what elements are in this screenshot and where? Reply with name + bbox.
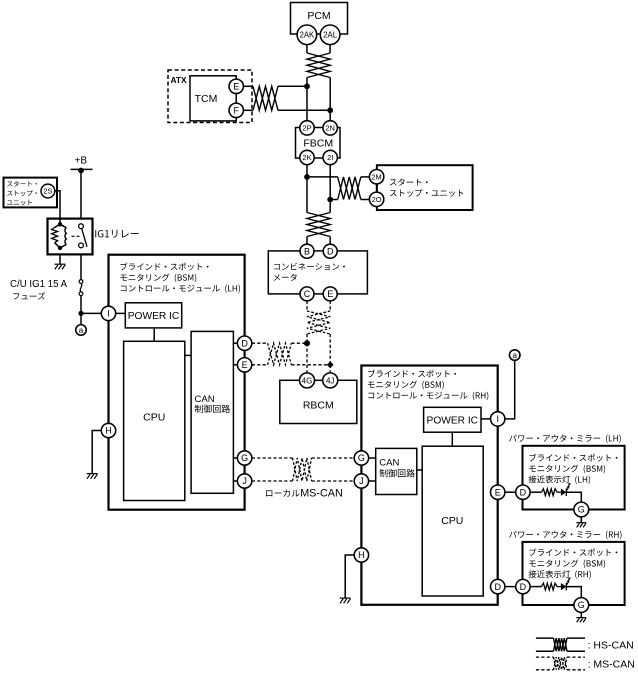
ground RH module [340, 597, 351, 599]
wire twisted to 2M [361, 176, 370, 178]
svg-text:TCM: TCM [195, 93, 218, 105]
power outer mirror LH box [523, 446, 625, 510]
resistor mirror LH [542, 489, 558, 496]
node junction fuse/I [78, 311, 83, 316]
svg-text:I: I [107, 309, 110, 319]
LED indicator RH [557, 586, 561, 588]
svg-text:J: J [359, 476, 364, 486]
fuse C/U IG1 15A [79, 280, 83, 284]
connector G mirror LH [574, 502, 589, 517]
MS-CAN dashed wire J local [252, 480, 293, 482]
combination meter box [268, 251, 367, 294]
svg-text:RBCM: RBCM [303, 400, 334, 412]
connector D LH [237, 336, 251, 350]
wire CPU to CAN box [185, 354, 191, 356]
wire +B down to relay [80, 169, 82, 218]
start-stop unit box (right) [377, 165, 473, 210]
wire G to ground mirror RH [580, 612, 582, 617]
MS-CAN dashed wire diamond to 4J [329, 365, 331, 373]
svg-text:D: D [241, 338, 248, 348]
wire POWER IC to CPU [153, 328, 155, 341]
svg-text:a: a [512, 351, 517, 360]
wire D to resistor RH [530, 586, 541, 588]
svg-text:+B: +B [75, 156, 88, 167]
wire CAN-L vertical to FBCM [329, 78, 331, 121]
MS-CAN dashed wire C down [306, 301, 308, 311]
wire junction to connector I [81, 312, 101, 314]
node junction MS-CAN L (diamond) [327, 361, 334, 368]
wire to meter B [306, 237, 308, 245]
svg-text:MS-CAN: MS-CAN [300, 487, 343, 499]
svg-text:2N: 2N [325, 124, 335, 133]
connector D meter [323, 244, 337, 258]
connector 2N [323, 121, 337, 135]
wire to start-stop 2O [330, 199, 338, 201]
ground LH module [87, 473, 98, 475]
relay switch blade [82, 229, 87, 247]
connector B meter [300, 244, 314, 258]
IG1 relay box [48, 219, 93, 255]
local MS-CAN label [266, 489, 300, 496]
connector 2I [323, 150, 337, 164]
svg-text:G: G [241, 453, 248, 463]
svg-text:D: D [520, 487, 527, 497]
wire CAN to E [233, 364, 237, 366]
power outer mirror RH box [523, 542, 625, 605]
wire PCM 2AK down [306, 45, 308, 53]
wire CAN-H vertical to FBCM [306, 78, 308, 121]
MS-CAN twisted pair local G/J [293, 458, 312, 481]
svg-text:D: D [520, 582, 527, 592]
+B power symbol [71, 168, 93, 170]
connector E RH [491, 485, 505, 499]
svg-text:D: D [327, 246, 334, 256]
relay coil node top [58, 222, 62, 226]
HS-CAN twisted pair start-stop [338, 177, 361, 200]
connector 2AK [297, 25, 317, 45]
wire 2I down [329, 165, 331, 213]
HS-CAN twisted pair TCM [253, 86, 278, 110]
PCM box [291, 3, 348, 35]
svg-text:H: H [358, 550, 365, 560]
MS-CAN dashed wire E to diamond [291, 364, 330, 366]
svg-text:G: G [358, 453, 365, 463]
wire PCM 2AL down [329, 45, 331, 53]
svg-text:2P: 2P [302, 124, 311, 133]
wire 2K down [306, 165, 308, 213]
svg-text:ATX: ATX [171, 75, 188, 85]
MS-CAN dashed wire E down [329, 301, 331, 311]
svg-text:FBCM: FBCM [303, 138, 333, 150]
node a (right) [509, 350, 520, 361]
connector D RH [491, 579, 505, 593]
svg-text:D: D [494, 582, 501, 592]
svg-text:CPU: CPU [441, 515, 463, 527]
wire LED to corner RH [566, 587, 581, 598]
IG1 relay label [95, 230, 138, 238]
svg-text:2K: 2K [302, 153, 311, 162]
CPU box LH [124, 341, 185, 500]
LED indicator LH [557, 491, 561, 493]
svg-text:2S: 2S [43, 187, 52, 196]
BSM control module RH box [361, 366, 497, 605]
FBCM box [296, 128, 341, 159]
wire TCM E [243, 85, 253, 87]
connector F TCM [229, 103, 243, 117]
wire relay coil to ground [59, 254, 61, 263]
resistor mirror RH [542, 583, 558, 590]
svg-text:4J: 4J [326, 376, 334, 385]
node junction TCM F wire [327, 107, 333, 113]
node junction start-stop top [304, 174, 310, 180]
wire TCM E to junction [278, 85, 307, 87]
wire D RH to mirror RH D [505, 586, 516, 588]
ground relay [55, 263, 66, 265]
svg-text:H: H [105, 426, 112, 436]
node junction MS-CAN H [304, 340, 310, 346]
connector I RH [491, 412, 505, 426]
relay coil [60, 224, 66, 227]
MS-CAN dashed wire G local [252, 457, 293, 459]
svg-text:4G: 4G [302, 376, 313, 385]
wire I to POWER IC [116, 312, 126, 314]
wire H to ground [92, 431, 101, 474]
connector D mirror RH [516, 579, 530, 593]
legend HS-CAN symbol [536, 637, 554, 639]
wire CAN to J [233, 480, 237, 482]
svg-text:POWER IC: POWER IC [427, 415, 479, 426]
svg-text:POWER IC: POWER IC [128, 311, 180, 322]
svg-text:CAN: CAN [379, 457, 399, 468]
connector 2K [300, 150, 314, 164]
svg-text:CAN: CAN [195, 394, 215, 405]
wire G to CAN RH [369, 457, 376, 459]
node a (left) [76, 325, 87, 336]
relay resistor [55, 224, 60, 227]
wire TCM F [243, 109, 253, 111]
ground mirror LH [576, 522, 586, 524]
relay actuation dashed link [72, 235, 81, 237]
connector H LH [101, 423, 115, 437]
connector 2S [41, 184, 55, 198]
wire POWER IC to I [481, 418, 491, 420]
connector J RH [354, 474, 368, 488]
MS-CAN dashed wire J to RH [312, 480, 355, 482]
svg-text:2AL: 2AL [323, 31, 338, 40]
connector 2AL [320, 25, 340, 45]
svg-text:E: E [495, 487, 501, 497]
wire E RH to mirror LH D [505, 491, 516, 493]
MS-CAN dashed wire E [252, 364, 268, 366]
svg-text:: HS-CAN: : HS-CAN [588, 640, 634, 652]
svg-text:C: C [304, 289, 311, 299]
connector J LH [237, 474, 251, 488]
HS-CAN twisted pair FBCM-meter [307, 213, 330, 237]
wire I to node a [505, 360, 515, 419]
MS-CAN dashed wire G to RH [312, 457, 355, 459]
wire 2S to relay coil [54, 191, 60, 225]
POWER IC box RH [424, 407, 481, 432]
wire fuse to junction [80, 296, 82, 325]
start-stop unit box (left) [4, 178, 58, 208]
connector H RH [354, 548, 368, 562]
CAN circuit box LH [191, 331, 233, 493]
svg-text:I: I [496, 414, 499, 424]
MS-CAN dashed wire to diamond [329, 334, 331, 365]
wire H RH to ground [345, 555, 354, 598]
HS-CAN twisted pair PCM-FBCM [307, 53, 330, 78]
power outer mirror LH label [509, 435, 621, 444]
MS-CAN twisted pair meter-RBCM [307, 311, 330, 334]
wire CAN to D [233, 342, 237, 344]
svg-text:2AK: 2AK [300, 31, 316, 40]
svg-text:2O: 2O [372, 195, 382, 204]
relay switch contact top [79, 224, 84, 229]
svg-text:G: G [578, 600, 585, 610]
node junction TCM E wire [304, 83, 310, 89]
svg-text:C/U IG1 15 A: C/U IG1 15 A [10, 279, 68, 290]
svg-text:2M: 2M [371, 172, 381, 181]
connector E TCM [229, 79, 243, 93]
connector G RH [354, 451, 368, 465]
svg-text:PCM: PCM [307, 10, 330, 22]
connector 4J [323, 373, 338, 388]
svg-text:J: J [242, 476, 247, 486]
svg-text:E: E [327, 289, 333, 299]
ATX dashed enclosure [168, 70, 252, 123]
wire 2M-2O link [376, 184, 378, 192]
MS-CAN dashed wire D to junction [291, 342, 307, 344]
wire D to resistor LH [530, 491, 541, 493]
legend MS-CAN symbol [536, 656, 554, 658]
relay coil node bottom [58, 246, 62, 250]
svg-text:a: a [79, 326, 84, 335]
MS-CAN dashed wire to junction [306, 334, 308, 343]
connector G LH [237, 451, 251, 465]
MS-CAN dashed wire D [252, 342, 268, 344]
connector 4G [300, 373, 315, 388]
svg-text:: MS-CAN: : MS-CAN [588, 659, 635, 671]
connector G mirror RH [574, 598, 589, 613]
CAN circuit box RH [376, 448, 417, 494]
wire G to ground mirror LH [580, 517, 582, 522]
POWER IC box LH [125, 303, 181, 328]
ground mirror RH [576, 617, 586, 619]
connector I LH [101, 306, 115, 320]
connector 2O [369, 192, 383, 206]
MS-CAN twisted pair D/E [268, 343, 292, 365]
svg-text:2I: 2I [327, 153, 333, 162]
wire J to CAN RH [369, 480, 376, 482]
connector 2P [300, 121, 314, 135]
svg-text:G: G [578, 505, 585, 515]
BSM control module LH box [109, 255, 245, 510]
svg-text:B: B [304, 246, 310, 256]
wire to meter D [329, 237, 331, 245]
node junction start-stop bottom [327, 197, 333, 203]
svg-text:E: E [242, 360, 248, 370]
power outer mirror RH label [509, 531, 621, 540]
TCM box [190, 76, 236, 121]
wire to start-stop 2M [307, 176, 338, 178]
MS-CAN dashed wire junction to 4G [306, 343, 308, 373]
connector E LH [237, 358, 251, 372]
wire relay switch down [80, 254, 82, 279]
wire POWER IC down to CPU RH [451, 432, 453, 446]
connector D mirror LH [516, 485, 530, 499]
svg-text:E: E [233, 82, 239, 92]
svg-text:F: F [233, 106, 239, 116]
RBCM box [280, 380, 357, 423]
connector 2M [369, 170, 383, 184]
CPU box RH [422, 446, 483, 596]
wire twisted to 2O [361, 199, 370, 201]
wire CAN to G [233, 457, 237, 459]
wire CAN to CPU RH [417, 469, 422, 471]
wire TCM F to junction [278, 109, 330, 111]
connector E meter [323, 287, 337, 301]
svg-text:CPU: CPU [143, 411, 165, 423]
wire LED to corner LH [566, 492, 581, 502]
connector C meter [300, 287, 314, 301]
relay switch contact bottom [79, 243, 84, 248]
